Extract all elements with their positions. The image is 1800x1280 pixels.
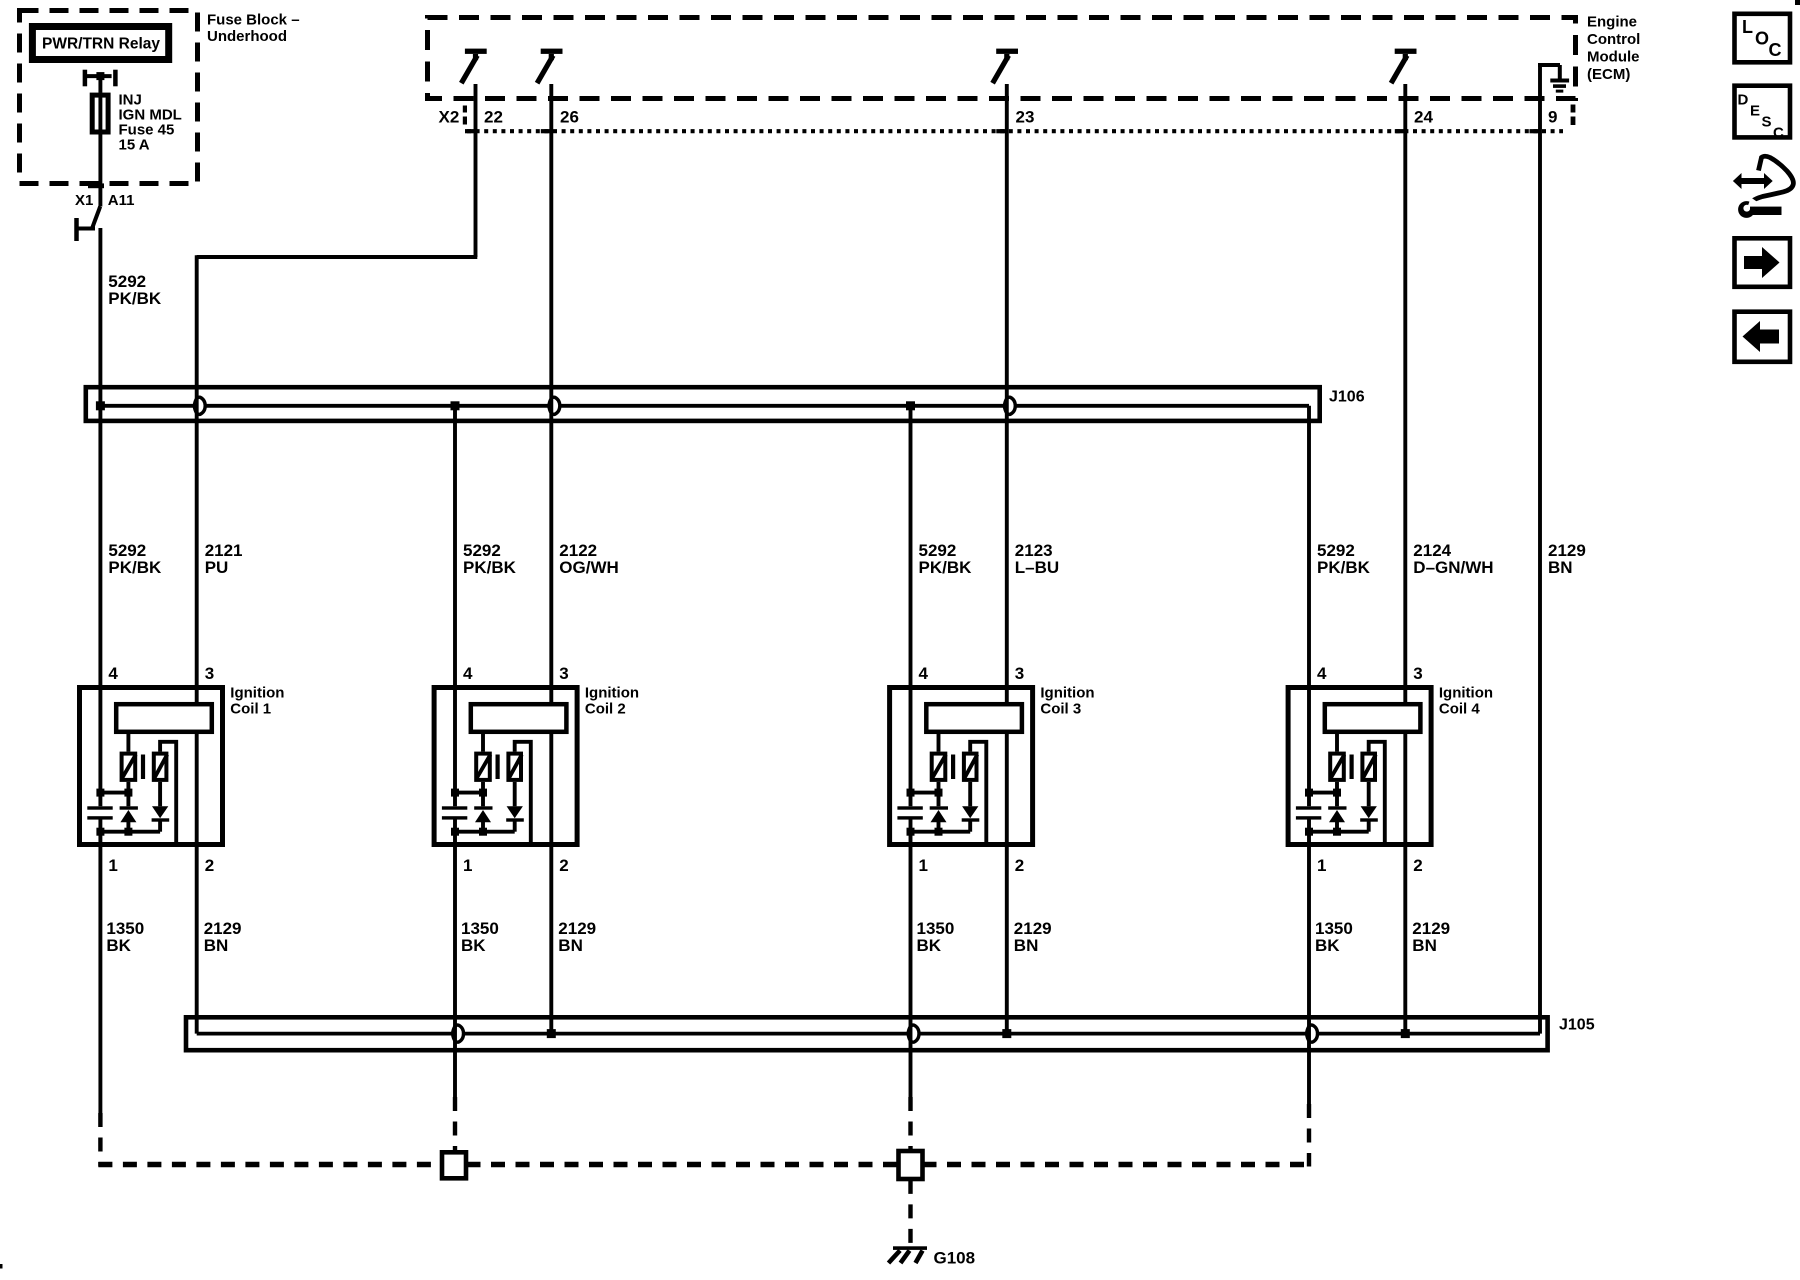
label pin 4 coil 4 <box>1317 664 1327 683</box>
label 5292 PK/BK at coil 1 <box>108 541 162 577</box>
wire 5292 PK/BK connector to J106 <box>98 228 102 406</box>
svg-text:1: 1 <box>1317 856 1326 875</box>
label Ignition Coil 1 <box>230 685 284 718</box>
ignition coil 2 (Ignition Coil 2) <box>434 688 577 845</box>
label pin 2 coil 1 <box>205 856 214 875</box>
fuse block dashed enclosure (Fuse Block - Underhood) <box>20 11 198 184</box>
node J105-A (coil 2 pin 2) <box>547 1029 556 1038</box>
svg-text:D–GN/WH: D–GN/WH <box>1413 558 1493 577</box>
connector X1/A11 symbol <box>77 207 101 242</box>
svg-text:(ECM): (ECM) <box>1587 66 1630 83</box>
svg-text:BN: BN <box>1548 558 1573 577</box>
svg-text:PK/BK: PK/BK <box>108 289 162 308</box>
wire 1350 BK coil 4 dashed drop <box>1307 1104 1311 1167</box>
label pin 26 <box>560 108 579 127</box>
svg-text:2: 2 <box>559 856 568 875</box>
label 1350 BK at coil 1 <box>106 919 144 955</box>
svg-text:Coil 1: Coil 1 <box>230 701 271 718</box>
ground dashed run: coil1 corner to splice S1 <box>98 1162 442 1168</box>
wire 2122 OG/WH: ECM pin 26 to Ignition Coil 2 pin 3 <box>549 84 553 702</box>
svg-text:PK/BK: PK/BK <box>919 558 973 577</box>
splice S2 <box>899 1151 923 1179</box>
svg-text:Module: Module <box>1587 49 1640 66</box>
svg-text:X2: X2 <box>439 108 460 127</box>
label 2129 BN at coil 4 <box>1412 919 1450 955</box>
svg-text:PK/BK: PK/BK <box>463 558 517 577</box>
connector pin-9 separator dashes <box>1571 105 1576 126</box>
wire 1350 BK from coil 4 pin 1 (solid) <box>1307 819 1311 1104</box>
svg-text:4: 4 <box>463 664 473 683</box>
wire 2129 BN from coil 2 pin 2 to J105 <box>549 734 553 1034</box>
wire 5292 PK/BK to Ignition Coil 3 pin 4 <box>909 406 913 807</box>
svg-text:3: 3 <box>1015 664 1024 683</box>
label pin 3 coil 3 <box>1015 664 1024 683</box>
wire relay to fuse <box>98 76 102 93</box>
label pin 24 <box>1414 108 1433 127</box>
svg-text:Coil 3: Coil 3 <box>1040 701 1081 718</box>
wire 2129 BN from coil 1 pin 2 to J105 <box>195 734 199 1034</box>
wire 1350 BK from coil 3 pin 1 (solid) <box>909 819 913 1097</box>
svg-text:Ignition: Ignition <box>1439 685 1493 702</box>
svg-text:2: 2 <box>205 856 214 875</box>
svg-text:Coil 2: Coil 2 <box>585 701 626 718</box>
ground G108 symbol <box>889 1246 928 1263</box>
label pin 4 coil 1 <box>108 664 118 683</box>
wire 5292 PK/BK to Ignition Coil 1 pin 4 <box>98 406 102 807</box>
label 1350 BK at coil 2 <box>461 919 499 955</box>
icon DESC button <box>1735 86 1791 142</box>
svg-text:2: 2 <box>1015 856 1024 875</box>
wire 1350 BK from coil 2 pin 1 (solid) <box>453 819 457 1097</box>
label Fuse Block - Underhood <box>207 12 300 46</box>
svg-text:G108: G108 <box>934 1249 976 1268</box>
svg-text:3: 3 <box>205 664 214 683</box>
icon wrench with arrows <box>1733 156 1793 218</box>
label pin 1 coil 1 <box>108 856 117 875</box>
svg-text:23: 23 <box>1016 108 1035 127</box>
wire 5292 PK/BK to Ignition Coil 2 pin 4 <box>453 406 457 807</box>
node J106-C (coil 3 tap) <box>906 401 915 410</box>
label pin 3 coil 4 <box>1413 664 1422 683</box>
svg-text:15 A: 15 A <box>119 136 150 153</box>
label pin 2 coil 2 <box>559 856 568 875</box>
svg-text:S: S <box>1762 114 1772 131</box>
splice S1 <box>442 1152 466 1178</box>
wire 2129 BN from coil 3 pin 2 to J105 <box>1005 734 1009 1034</box>
svg-text:D: D <box>1738 92 1749 109</box>
svg-text:Coil 4: Coil 4 <box>1439 701 1480 718</box>
relay output terminal bracket <box>85 70 116 87</box>
svg-text:1: 1 <box>108 856 117 875</box>
svg-text:PWR/TRN Relay: PWR/TRN Relay <box>42 36 160 53</box>
label 5292 PK/BK at coil 2 <box>463 541 517 577</box>
svg-text:4: 4 <box>1317 664 1327 683</box>
svg-text:BN: BN <box>558 936 583 955</box>
label Ignition Coil 4 <box>1439 685 1493 718</box>
label 1350 BK at coil 3 <box>917 919 955 955</box>
label pin 4 coil 2 <box>463 664 473 683</box>
J105 hop over wire 1350 (coil 4) <box>1307 1025 1318 1042</box>
label J106 <box>1329 389 1365 406</box>
label pin 1 coil 3 <box>919 856 928 875</box>
svg-text:Ignition: Ignition <box>230 685 284 702</box>
label 2129 BN at coil 3 <box>1014 919 1052 955</box>
svg-text:PU: PU <box>205 558 229 577</box>
icon LOC button <box>1735 14 1791 63</box>
label 2124 D&#8211;GN/WH at coil 4 <box>1413 541 1493 577</box>
svg-text:BN: BN <box>1412 936 1437 955</box>
wire 5292 PK/BK to Ignition Coil 4 pin 4 <box>1307 406 1311 807</box>
label pin 9 <box>1548 108 1557 127</box>
wire 2129 BN: ECM pin 9 to J105 <box>1538 65 1542 1034</box>
svg-text:Ignition: Ignition <box>585 685 639 702</box>
label pin 4 coil 3 <box>919 664 929 683</box>
ignition coil 4 (Ignition Coil 4) <box>1288 688 1431 845</box>
svg-text:4: 4 <box>108 664 118 683</box>
label X1 A11 <box>75 192 135 209</box>
svg-text:BK: BK <box>461 936 486 955</box>
svg-text:PK/BK: PK/BK <box>1317 558 1371 577</box>
wire 1350 BK coil 1 dashed drop <box>98 1113 102 1167</box>
svg-text:26: 26 <box>560 108 579 127</box>
J105 hop over wire 1350 (coil 3) <box>908 1025 919 1042</box>
label pin 23 <box>1016 108 1035 127</box>
svg-text:C: C <box>1769 40 1782 60</box>
label Engine Control Module (ECM) <box>1587 14 1640 84</box>
ignition coil 1 (Ignition Coil 1) <box>80 688 223 845</box>
J105 hop over wire 1350 (coil 2) <box>453 1025 464 1042</box>
wire 1350 BK coil 2 dashed drop <box>453 1097 457 1152</box>
ECM dashed enclosure (Engine Control Module) <box>428 18 1576 99</box>
label 5292 PK/BK at coil 3 <box>919 541 973 577</box>
svg-text:J106: J106 <box>1329 389 1365 406</box>
svg-text:9: 9 <box>1548 108 1557 127</box>
ECM connector face dotted line <box>467 129 1563 133</box>
svg-text:Underhood: Underhood <box>207 28 287 45</box>
label G108 <box>934 1249 976 1268</box>
J106 hop over wire 2121 <box>194 397 205 414</box>
svg-text:1: 1 <box>463 856 472 875</box>
svg-text:Ignition: Ignition <box>1040 685 1094 702</box>
wire 1350 BK coil 3 dashed drop <box>908 1097 912 1151</box>
label X2 <box>439 108 460 127</box>
svg-text:Control: Control <box>1587 31 1640 48</box>
svg-text:3: 3 <box>1413 664 1422 683</box>
svg-text:2: 2 <box>1413 856 1422 875</box>
label 2123 L&#8211;BU at coil 3 <box>1015 541 1059 577</box>
svg-text:C: C <box>1773 125 1784 142</box>
svg-text:OG/WH: OG/WH <box>559 558 619 577</box>
label pin 1 coil 2 <box>463 856 472 875</box>
svg-text:A11: A11 <box>108 192 135 209</box>
connector X2 separator dashes <box>463 106 467 125</box>
page corner mark top-right <box>1795 0 1800 5</box>
driver Q23 (EST 3 output) <box>993 49 1018 84</box>
label Ignition Coil 3 <box>1040 685 1094 718</box>
label 2121 PU at coil 1 <box>205 541 243 577</box>
fuse F45 (INJ IGN MDL Fuse 45 15 A) <box>92 92 182 154</box>
splice pack J105 bus bar <box>186 1017 1548 1050</box>
svg-text:L: L <box>1742 17 1753 37</box>
label 2129 BN at coil 1 <box>204 919 242 955</box>
svg-text:J105: J105 <box>1559 1017 1595 1034</box>
svg-text:X1: X1 <box>75 192 93 209</box>
label 2129 BN at coil 2 <box>558 919 596 955</box>
svg-text:O: O <box>1755 29 1769 49</box>
label J105 <box>1559 1017 1595 1034</box>
label pin 1 coil 4 <box>1317 856 1326 875</box>
ground dashed run: splice S1 to splice S2 <box>467 1162 899 1168</box>
label pin 2 coil 3 <box>1015 856 1024 875</box>
label pin 3 coil 2 <box>559 664 568 683</box>
svg-text:BN: BN <box>204 936 229 955</box>
splice pack J106 bus bar <box>86 387 1320 421</box>
label 2129 BN (right column) <box>1548 541 1586 577</box>
node J105-C (coil 4 pin 2) <box>1401 1029 1410 1038</box>
relay PWR/TRN Relay (thick box) <box>32 27 168 60</box>
label Ignition Coil 2 <box>585 685 639 718</box>
svg-text:BK: BK <box>917 936 942 955</box>
node J105-B (coil 3 pin 2) <box>1002 1029 1011 1038</box>
wire 2129 BN from coil 4 pin 2 to J105 <box>1403 734 1407 1034</box>
label 5292 PK/BK (upper) <box>108 272 162 308</box>
ECM internal ground symbol at pin 9 <box>1538 65 1569 93</box>
node J106-A (5292 feed) <box>96 401 105 410</box>
label 1350 BK at coil 4 <box>1315 919 1353 955</box>
ground dashed run: splice S2 to coil4 corner <box>923 1162 1312 1168</box>
svg-text:L–BU: L–BU <box>1015 558 1059 577</box>
icon forward arrow button <box>1735 238 1791 286</box>
svg-text:BK: BK <box>106 936 131 955</box>
svg-text:BN: BN <box>1014 936 1039 955</box>
label 2122 OG/WH at coil 2 <box>559 541 619 577</box>
svg-text:E: E <box>1750 103 1760 120</box>
label pin 2 coil 4 <box>1413 856 1422 875</box>
icon back arrow button <box>1735 312 1791 362</box>
wire 2121 PU: ECM pin 22 to corner <box>197 84 478 257</box>
svg-text:3: 3 <box>559 664 568 683</box>
J106 hop over wire 2123 <box>1004 397 1015 414</box>
driver Q22 (EST 1 output) <box>461 49 486 84</box>
svg-text:22: 22 <box>484 108 503 127</box>
svg-text:BK: BK <box>1315 936 1340 955</box>
wire 2121 PU: vertical to Ignition Coil 1 pin 3 <box>195 255 199 702</box>
label 5292 PK/BK at coil 4 <box>1317 541 1371 577</box>
svg-text:Engine: Engine <box>1587 14 1637 31</box>
svg-text:4: 4 <box>919 664 929 683</box>
driver Q26 (EST 2 output) <box>537 49 562 84</box>
page corner mark bottom-left <box>0 1264 3 1269</box>
svg-text:Fuse Block –: Fuse Block – <box>207 12 300 29</box>
ignition coil 3 (Ignition Coil 3) <box>890 688 1033 845</box>
ground dashed drop to G108 <box>908 1180 912 1246</box>
wire fuse to connector X1 <box>88 135 104 207</box>
node J106-B (coil 2 tap) <box>451 401 460 410</box>
wire 1350 BK from coil 1 pin 1 (solid) <box>98 819 102 1113</box>
svg-text:PK/BK: PK/BK <box>108 558 162 577</box>
wire 2124 D-GN/WH: ECM pin 24 to Ignition Coil 4 pin 3 <box>1403 84 1407 702</box>
driver Q24 (EST 4 output) <box>1391 49 1416 84</box>
svg-text:1: 1 <box>919 856 928 875</box>
J106 hop over wire 2122 <box>549 397 560 414</box>
pin ticks at connector face <box>465 129 1540 133</box>
wire 2123 L-BU: ECM pin 23 to Ignition Coil 3 pin 3 <box>1005 84 1009 702</box>
label pin 3 coil 1 <box>205 664 214 683</box>
svg-text:24: 24 <box>1414 108 1433 127</box>
label pin 22 <box>484 108 503 127</box>
